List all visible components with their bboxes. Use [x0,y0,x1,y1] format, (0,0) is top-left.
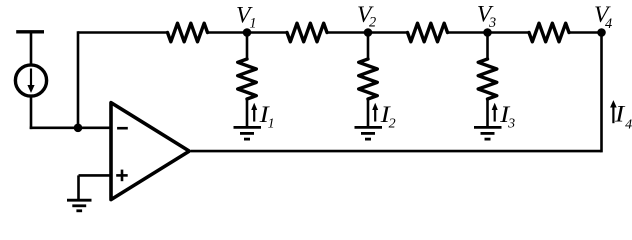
current arrow I4 [610,100,617,123]
resistor (V3 shunt) [478,33,497,127]
ground (V1 branch) [234,127,262,139]
terminal bar [16,30,44,33]
wire [600,33,603,153]
current source [15,65,46,96]
current arrow I3 [492,103,498,122]
svg-text:2: 2 [369,15,376,31]
label V4 [594,2,612,32]
label V3 [477,2,496,32]
label I1 [259,101,275,132]
resistor (V1 shunt) [238,33,257,127]
label I4 [614,100,632,132]
svg-text:4: 4 [625,117,632,132]
svg-text:3: 3 [507,116,515,131]
wire [448,31,530,34]
wire [30,127,111,130]
op-amp U1 [111,103,189,200]
resistor R4 [529,23,569,42]
resistor R3 [408,23,448,42]
label I2 [380,101,396,132]
wire [191,150,602,153]
node V3 [483,28,492,37]
wire [30,97,33,129]
wire [208,31,288,34]
wire [327,31,408,34]
label I3 [499,101,515,132]
node V2 [364,28,373,37]
svg-text:I: I [614,100,626,127]
svg-text:4: 4 [605,16,612,32]
wire [569,31,602,34]
wire [77,31,80,128]
svg-text:3: 3 [488,15,496,31]
wire [30,32,33,64]
wire [78,31,168,34]
label V1 [236,3,257,32]
resistor R2 [287,23,327,42]
label V2 [357,2,376,31]
svg-text:1: 1 [249,15,256,31]
resistor (V2 shunt) [359,33,378,127]
current arrow I2 [372,103,378,122]
node (inverting input junction) [74,124,83,133]
ground (op-amp + input) [67,200,92,211]
svg-text:2: 2 [389,116,396,131]
node V4 [597,28,606,37]
ground (V3 branch) [474,127,502,139]
node V1 [243,28,252,37]
ground (V2 branch) [355,127,383,139]
wire [79,174,112,177]
wire [77,175,80,199]
current arrow I1 [251,103,257,122]
svg-text:1: 1 [268,116,275,131]
resistor R1 [168,23,208,42]
